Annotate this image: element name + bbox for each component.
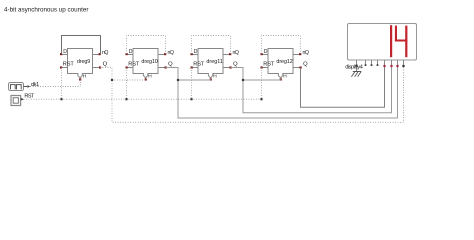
clock source output stub bbox=[24, 86, 28, 88]
wire dreg11 nQ to D feedback loop (dotted) bbox=[192, 36, 231, 55]
display input pin A0 stub bbox=[403, 60, 405, 66]
junction Q1 at (177,80) bbox=[177, 79, 179, 81]
svg-text:clk1: clk1 bbox=[31, 82, 39, 88]
wire net Q0 branch to dreg10 clock (dotted) bbox=[112, 79, 146, 80]
svg-text:dreg11: dreg11 bbox=[206, 59, 222, 65]
display unused pin 3 stub bbox=[377, 60, 379, 65]
wire clk1 net to dreg9 clock (dotted) bbox=[30, 86, 80, 88]
wire RST riser to dreg9 (dotted) bbox=[61, 68, 63, 100]
svg-text:display4: display4 bbox=[345, 65, 363, 71]
junction RST net at dreg10 bbox=[125, 98, 127, 100]
display ground pin dot bbox=[355, 65, 357, 67]
display digit 4 segments B C bbox=[405, 26, 407, 58]
clock source pulse icon 2 bbox=[17, 85, 22, 90]
wire dreg12 nQ to D feedback loop (dotted) bbox=[262, 36, 301, 55]
switch RST output stub bbox=[20, 98, 23, 100]
svg-text:dreg9: dreg9 bbox=[77, 59, 90, 65]
switch RST button inner bbox=[13, 98, 18, 104]
display unused pin 1 dot bbox=[365, 64, 367, 66]
display digit 1 segment bbox=[390, 25, 392, 57]
display unused pin 2 dot bbox=[371, 64, 373, 66]
junction RST net at dreg9 bbox=[60, 98, 62, 100]
display input pin A2 dot bbox=[390, 65, 392, 67]
switch RST output arrow bbox=[21, 98, 24, 101]
wire dreg10 nQ to D feedback loop (dotted) bbox=[127, 36, 166, 55]
wire dreg9 clock riser (dotted) bbox=[80, 80, 82, 87]
display input pin A1 dot bbox=[396, 65, 398, 67]
svg-text:4-bit asynchronous up counter: 4-bit asynchronous up counter bbox=[4, 7, 89, 14]
svg-text:dreg12: dreg12 bbox=[276, 59, 292, 65]
display U5 display4 box bbox=[348, 24, 417, 61]
wire RST riser to dreg10 (dotted) bbox=[126, 68, 128, 100]
flip-flop U2 dreg10 bbox=[126, 49, 174, 81]
flip-flop U3 dreg11 bbox=[191, 49, 239, 81]
clock source pulse icon 1 bbox=[11, 85, 16, 90]
flip-flop U4 dreg12 bbox=[261, 49, 309, 81]
junction RST net at dreg11 bbox=[190, 98, 192, 100]
display unused pin 1 stub bbox=[365, 60, 367, 65]
svg-text:RST: RST bbox=[24, 93, 34, 99]
clock source output arrow bbox=[28, 85, 31, 88]
wire RST riser to dreg11 (dotted) bbox=[191, 68, 193, 100]
switch RST button outer bbox=[11, 96, 21, 106]
wire RST riser to dreg12 (dotted) bbox=[261, 68, 263, 100]
display input pin A1 stub bbox=[397, 60, 399, 66]
display digit 4 segment F bbox=[395, 26, 397, 42]
wire net Q3: dreg12 Q down to display bus (solid) bbox=[301, 66, 385, 107]
wire RST net horizontal (dotted) bbox=[24, 98, 262, 100]
wire net Q1 branch to dreg11 clock (solid) bbox=[178, 79, 210, 80]
wire net Q0: dreg9 Q down to display bus (dotted) bbox=[100, 66, 404, 122]
display input pin A3 dot bbox=[383, 65, 385, 67]
display unused pin 3 dot bbox=[377, 64, 379, 66]
flip-flop U1 dreg9 bbox=[60, 49, 108, 81]
clock source clk1 box bbox=[9, 83, 24, 91]
display input pin A2 stub bbox=[391, 60, 393, 66]
wire net Q2 branch to dreg12 clock (solid) bbox=[243, 79, 280, 80]
wire net Q2: dreg11 Q down to display bus (solid) bbox=[231, 66, 392, 113]
wire dreg9 nQ to D feedback loop (solid) bbox=[62, 36, 101, 55]
display input pin A3 stub bbox=[384, 60, 386, 66]
wire net Q1: dreg10 Q down to display bus (solid) bbox=[166, 66, 398, 118]
display ground pin stub bbox=[356, 60, 358, 71]
display input pin A0 dot bbox=[402, 65, 404, 67]
display digit 4 segment G bbox=[395, 40, 407, 42]
junction RST net at dreg12 bbox=[260, 98, 262, 100]
svg-text:dreg10: dreg10 bbox=[141, 59, 157, 65]
ground symbol bbox=[351, 72, 361, 77]
junction Q0 at (112,80) bbox=[111, 79, 113, 81]
display unused pin 2 stub bbox=[371, 60, 373, 65]
junction Q2 at (243,80) bbox=[242, 79, 244, 81]
